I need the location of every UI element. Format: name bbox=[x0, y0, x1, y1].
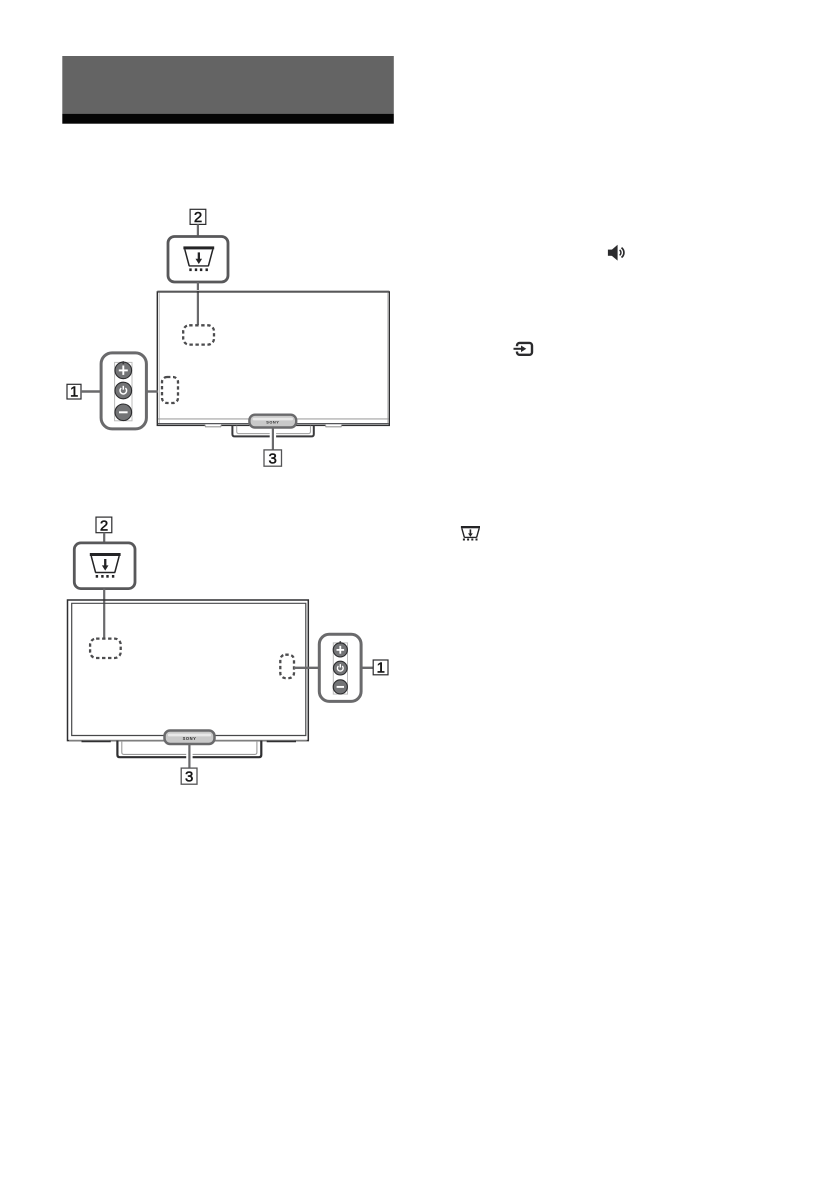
leader line from dashed box to control panel (diagram 2) bbox=[294, 667, 319, 669]
input select icon bbox=[514, 343, 533, 355]
touchpad remote sensor icon box (diagram 2) bbox=[74, 543, 135, 589]
volume + button (diagram 2) bbox=[333, 643, 347, 657]
label box 2 (diagram 2) bbox=[96, 517, 112, 534]
leader line from logo bar to label 3 (diagram 1) bbox=[270, 428, 276, 451]
control buttons panel (diagram 2) bbox=[319, 634, 361, 701]
touchpad remote sensor icon box (diagram 1) bbox=[168, 237, 228, 283]
small touchpad remote sensor icon (inline) bbox=[461, 526, 480, 541]
svg-text:1: 1 bbox=[70, 384, 78, 401]
dashed box: remote sensor position (diagram 2) bbox=[90, 639, 121, 658]
leader line from control panel to TV edge (diagram 1) bbox=[146, 390, 158, 392]
TV 1 stand inner light line bbox=[237, 426, 311, 434]
label box 3 (diagram 1) bbox=[264, 450, 282, 468]
svg-text:SONY: SONY bbox=[183, 736, 197, 741]
leader line from label 2 to sensor icon box (diagram 1) bbox=[197, 224, 199, 237]
svg-text:3: 3 bbox=[269, 451, 277, 468]
svg-text:2: 2 bbox=[194, 209, 202, 226]
buttons strip (diagram 1) bbox=[115, 362, 132, 420]
volume - button (diagram 1) bbox=[115, 404, 132, 421]
buttons strip (diagram 2) bbox=[333, 643, 347, 694]
leader line from control panel to label 1 (diagram 2) bbox=[361, 667, 373, 669]
TV 1 left foot notch bbox=[205, 425, 221, 427]
svg-text:2: 2 bbox=[100, 517, 108, 534]
TV 1 top outer light edge bbox=[157, 290, 389, 292]
label box 3 (diagram 2) bbox=[181, 768, 197, 786]
volume - button (diagram 2) bbox=[333, 680, 347, 694]
volume + tactile tick (diagram 1) bbox=[122, 361, 124, 364]
svg-text:1: 1 bbox=[377, 659, 385, 676]
svg-text:SONY: SONY bbox=[266, 420, 279, 425]
label box 1 (diagram 2) bbox=[373, 659, 388, 676]
TV 2 bottom outer grey line bbox=[69, 740, 307, 742]
power button (diagram 2) bbox=[333, 661, 347, 675]
TV 2 inner bezel line bbox=[72, 603, 306, 735]
TV 1 outer bezel bbox=[157, 292, 389, 426]
TV 1 right foot notch bbox=[325, 425, 341, 427]
label box 2 (diagram 1) bbox=[190, 209, 206, 226]
TV 2 stand inner light line bbox=[122, 741, 257, 754]
leader line from label 1 to control panel (diagram 1) bbox=[81, 390, 101, 392]
svg-text:3: 3 bbox=[185, 769, 193, 786]
dashed box: remote sensor position (diagram 1) bbox=[183, 325, 214, 344]
TV 2 right foot bbox=[268, 740, 296, 743]
SONY logo bar (diagram 1) bbox=[249, 415, 296, 428]
header black underline bar bbox=[62, 114, 394, 124]
dashed box: side controls position (diagram 1) bbox=[162, 377, 178, 403]
power button (diagram 1) bbox=[115, 382, 132, 399]
SONY logo bar (diagram 2) bbox=[165, 731, 215, 745]
TV 2 stand outer bbox=[117, 741, 261, 758]
leader line from sensor icon box into TV screen (diagram 2) bbox=[101, 589, 107, 640]
leader line from logo bar to label 3 (diagram 2) bbox=[186, 744, 192, 768]
TV 1 right inner light edge bbox=[387, 293, 389, 425]
TV 1 chin grey line bbox=[158, 423, 389, 425]
TV 1 stand outer bbox=[232, 426, 313, 437]
leader line from sensor icon box into TV screen (diagram 1) bbox=[195, 282, 201, 325]
label box 1 (diagram 1) bbox=[67, 384, 81, 401]
control buttons panel (diagram 1) bbox=[101, 353, 146, 429]
TV 1 screen bottom light line bbox=[158, 418, 389, 420]
header grey title block bbox=[62, 56, 394, 114]
leader line from label 2 to sensor icon box (diagram 2) bbox=[103, 533, 105, 544]
speaker / volume icon bbox=[608, 245, 624, 261]
touchpad remote sensor icon (diagram 2) bbox=[90, 553, 121, 578]
TV 1 left inner light edge bbox=[158, 293, 160, 425]
touchpad remote sensor icon (diagram 1) bbox=[183, 246, 214, 271]
volume + button (diagram 1) bbox=[115, 362, 132, 379]
dashed box: side controls position (diagram 2) bbox=[280, 655, 294, 678]
TV 2 left foot bbox=[82, 740, 110, 743]
volume + tactile tick (diagram 2) bbox=[339, 641, 341, 644]
TV 2 outer bezel bbox=[68, 600, 309, 741]
